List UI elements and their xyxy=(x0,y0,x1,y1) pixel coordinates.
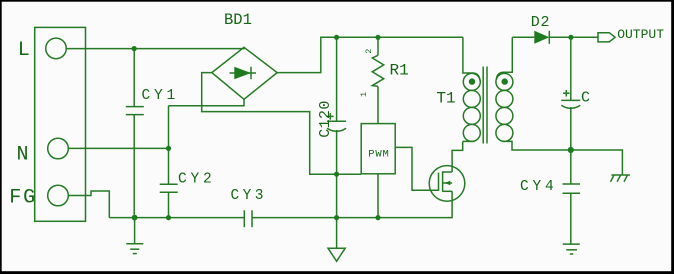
svg-text:PWM: PWM xyxy=(368,149,389,161)
svg-text:R1: R1 xyxy=(390,62,409,80)
svg-text:CY4: CY4 xyxy=(520,179,558,195)
svg-text:D2: D2 xyxy=(531,14,551,31)
svg-text:CY1: CY1 xyxy=(142,88,180,104)
svg-text:FG: FG xyxy=(9,187,37,210)
svg-text:CY3: CY3 xyxy=(231,188,267,204)
svg-text:C120: C120 xyxy=(317,100,334,138)
svg-text:1: 1 xyxy=(359,92,369,97)
svg-text:CY2: CY2 xyxy=(178,172,216,188)
svg-text:N: N xyxy=(17,144,29,167)
svg-text:L: L xyxy=(18,39,30,62)
svg-text:2: 2 xyxy=(364,49,374,54)
svg-text:BD1: BD1 xyxy=(224,11,252,29)
svg-text:OUTPUT: OUTPUT xyxy=(617,27,664,42)
svg-text:T1: T1 xyxy=(436,89,455,107)
svg-text:C: C xyxy=(581,90,590,107)
